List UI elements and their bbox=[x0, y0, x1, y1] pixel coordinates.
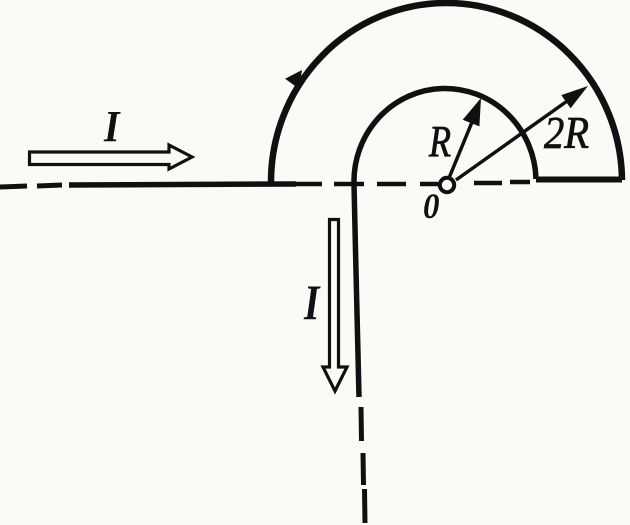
hollow current arrow I (vertical) bbox=[323, 220, 347, 392]
svg-text:0: 0 bbox=[423, 186, 440, 226]
current direction arrowhead on outer arc bbox=[285, 70, 302, 89]
hollow current arrow I (horizontal) bbox=[30, 145, 193, 169]
radius arrow 2R (line) bbox=[456, 99, 570, 180]
node O (small open circle at centre) bbox=[440, 178, 454, 192]
horizontal dashed axis line (far left) bbox=[0, 185, 62, 187]
svg-text:2R: 2R bbox=[544, 107, 589, 158]
wire: inner semicircle of radius R continuing into vertical wire bbox=[354, 88, 536, 397]
wire: right horizontal straight segment bbox=[536, 177, 622, 183]
vertical dashed continuation of wire bbox=[361, 407, 365, 523]
svg-text:I: I bbox=[303, 274, 321, 330]
radius arrow R (head) bbox=[463, 98, 481, 126]
wire: outer semicircle of radius 2R bbox=[271, 3, 622, 184]
horizontal dashed axis line (middle, through O) bbox=[296, 182, 530, 184]
radius arrow 2R (head) bbox=[561, 86, 588, 108]
svg-text:I: I bbox=[103, 102, 121, 151]
wire: incoming horizontal straight segment bbox=[69, 184, 296, 185]
svg-text:R: R bbox=[428, 117, 451, 166]
radius arrow R (line) bbox=[449, 110, 477, 178]
